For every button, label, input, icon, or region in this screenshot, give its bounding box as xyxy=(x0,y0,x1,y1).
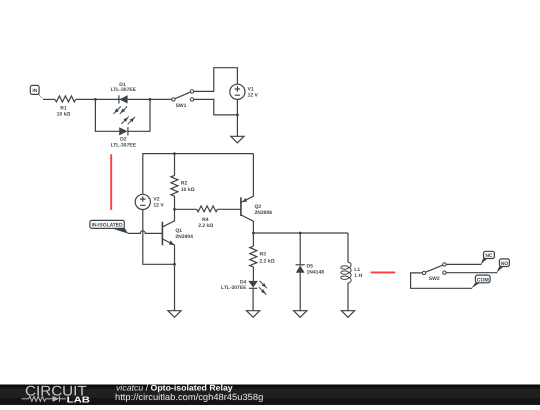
footer bar xyxy=(0,385,540,406)
svg-text:10 kΩ: 10 kΩ xyxy=(181,187,195,193)
voltage source V1 xyxy=(230,84,259,99)
resistor R3 xyxy=(250,233,275,281)
wire node B to SW1 xyxy=(150,98,172,100)
svg-text:2N3906: 2N3906 xyxy=(255,210,273,216)
wire R1 to node A xyxy=(76,98,96,100)
resistor R2 xyxy=(171,154,195,210)
wire Q1 emitter down xyxy=(174,264,176,310)
diode D2 xyxy=(111,127,137,148)
svg-text:SW1: SW1 xyxy=(176,103,187,109)
svg-text:V2: V2 xyxy=(153,196,159,202)
switch SW1 xyxy=(172,90,194,109)
svg-text:10 kΩ: 10 kΩ xyxy=(57,112,71,118)
svg-text:http://circuitlab.com/cgh48r45: http://circuitlab.com/cgh48r45u358g xyxy=(115,392,263,402)
svg-text:V1: V1 xyxy=(248,86,254,92)
svg-text:R4: R4 xyxy=(202,217,209,223)
wire lower branch right xyxy=(128,99,150,131)
svg-text:2N3904: 2N3904 xyxy=(175,234,193,240)
ground D4 xyxy=(247,311,260,318)
diode D4 xyxy=(221,279,258,291)
svg-text:IN: IN xyxy=(32,88,37,94)
D2 emission arrows xyxy=(121,117,135,125)
svg-text:SW2: SW2 xyxy=(429,276,440,282)
svg-text:NO: NO xyxy=(501,261,509,267)
wire SW2 NC xyxy=(446,263,481,265)
red annotation line left xyxy=(110,154,112,210)
svg-text:R2: R2 xyxy=(181,181,188,187)
svg-text:LAB: LAB xyxy=(67,394,90,404)
wire V1 bottom xyxy=(236,99,238,136)
svg-text:R3: R3 xyxy=(260,251,267,257)
resistor R4 xyxy=(175,206,241,229)
terminal flag IN xyxy=(30,85,44,99)
wire collector rail xyxy=(253,232,348,234)
svg-text:IN-ISOLATED: IN-ISOLATED xyxy=(92,223,123,229)
switch SW2 xyxy=(422,263,446,283)
wire D5 branch top xyxy=(299,233,301,265)
wire SW1 bottom throw to V1 bottom xyxy=(194,99,238,115)
voltage source V2 xyxy=(135,194,164,209)
ground Q1 emitter xyxy=(168,311,181,318)
wire D4 to ground xyxy=(252,288,254,310)
svg-text:1N4148: 1N4148 xyxy=(307,270,325,276)
resistor R1 xyxy=(55,96,76,118)
wire SW1 top throw to V1 top xyxy=(194,68,238,92)
node B junction xyxy=(149,98,152,101)
svg-text:LTL-307EE: LTL-307EE xyxy=(111,142,137,148)
wire L1 branch top xyxy=(347,233,349,262)
ground D5 xyxy=(294,311,307,318)
wire L1 to ground xyxy=(347,283,349,311)
diode D1 xyxy=(111,82,137,104)
wire V2 rail top xyxy=(143,154,254,195)
D4 emission arrows xyxy=(259,281,267,295)
svg-text:12 V: 12 V xyxy=(248,93,259,99)
transistor Q2 xyxy=(241,154,272,233)
diode D5 xyxy=(296,264,325,276)
wire lower branch left xyxy=(95,99,119,131)
svg-text:LTL-307EE: LTL-307EE xyxy=(221,285,247,291)
node D5 junction xyxy=(299,232,302,235)
node Q2 collector junction xyxy=(252,232,255,235)
wire V2 bottom to emitter line xyxy=(143,210,175,265)
svg-text:2.2 kΩ: 2.2 kΩ xyxy=(198,223,213,229)
wire D5 to ground xyxy=(299,273,301,311)
svg-text:1 H: 1 H xyxy=(354,273,362,279)
ground top circuit xyxy=(231,136,244,143)
svg-text:2.2 kΩ: 2.2 kΩ xyxy=(260,259,275,265)
ground L1 xyxy=(341,311,354,318)
red annotation line right xyxy=(371,271,396,273)
inductor L1 xyxy=(341,262,363,283)
transistor Q1 xyxy=(162,209,193,264)
svg-text:LTL-307EE: LTL-307EE xyxy=(111,87,137,93)
wire node A to node B xyxy=(95,98,150,100)
terminal flag NC xyxy=(481,251,495,264)
terminal flag COM xyxy=(471,275,490,288)
wire IN to R1 xyxy=(43,98,55,100)
wire SW2 COM xyxy=(411,273,473,288)
node A junction xyxy=(94,98,97,101)
svg-text:R1: R1 xyxy=(60,105,67,111)
terminal flag NO xyxy=(496,259,509,273)
node emitter junction xyxy=(173,263,176,266)
terminal flag IN-ISOLATED xyxy=(90,220,128,233)
svg-text:COM: COM xyxy=(477,277,489,283)
D1 emission arrows xyxy=(114,106,128,113)
node rail-R2 junction xyxy=(173,152,176,155)
node V1 bottom junction xyxy=(236,114,239,117)
node R2 bottom junction xyxy=(173,208,176,211)
svg-text:12 V: 12 V xyxy=(153,203,164,209)
wire SW2 NO xyxy=(446,272,497,274)
wire Q1 base with hop xyxy=(128,231,163,234)
logo schematic squiggle xyxy=(22,396,67,402)
svg-text:NC: NC xyxy=(485,253,493,259)
